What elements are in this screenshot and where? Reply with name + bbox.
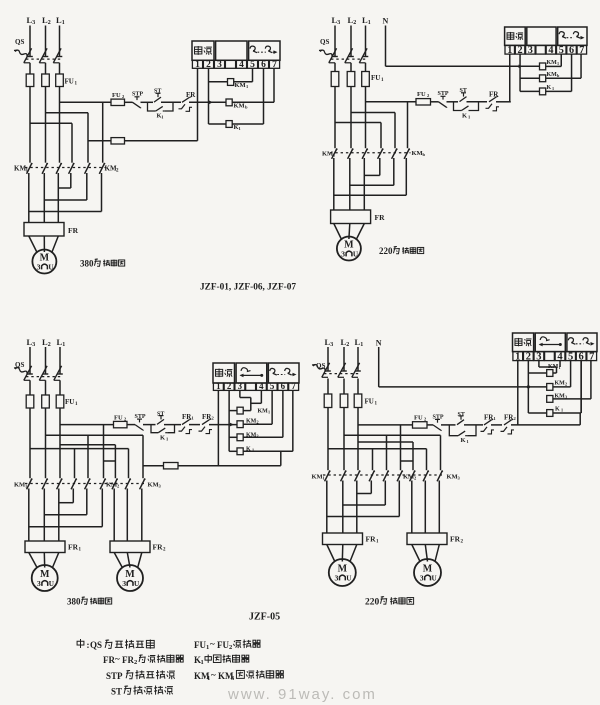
svg-text:FR: FR [375,213,386,222]
svg-text:~: ~ [115,654,120,664]
svg-text:2: 2 [134,659,137,666]
svg-text:KM: KM [148,482,159,489]
svg-text:3: 3 [341,250,345,259]
svg-text:FU: FU [417,91,426,98]
svg-text:2: 2 [48,342,51,348]
svg-text:2: 2 [229,644,232,651]
svg-text:FR: FR [366,535,377,544]
svg-text:KM: KM [234,103,245,110]
svg-text:KM: KM [412,150,423,157]
svg-text:FU: FU [365,398,374,406]
svg-text:220: 220 [379,246,393,256]
svg-text:3: 3 [217,60,222,70]
svg-text:K: K [462,113,467,120]
svg-text:KM: KM [403,474,414,481]
svg-text:K: K [160,435,165,442]
svg-text:M: M [423,564,433,575]
svg-text:3: 3 [32,20,35,26]
svg-text:7: 7 [291,381,296,391]
svg-text:U: U [48,264,54,272]
svg-text:QS: QS [15,38,24,46]
svg-text:2: 2 [565,382,567,387]
svg-text:FR: FR [68,226,79,235]
svg-text:FU: FU [65,78,74,86]
svg-text:1: 1 [201,659,204,666]
svg-text:N: N [383,17,389,26]
svg-text:KM: KM [322,151,333,158]
svg-text:1: 1 [268,410,270,415]
svg-text:U: U [49,580,55,588]
svg-text:2: 2 [227,381,232,391]
svg-text:1: 1 [552,86,554,91]
svg-text:FU: FU [194,640,206,650]
svg-text:STP: STP [106,671,123,681]
svg-text:380: 380 [80,259,94,269]
svg-text:KM: KM [14,482,25,489]
svg-text:2: 2 [48,20,51,26]
svg-text:5: 5 [270,381,275,391]
svg-text:380: 380 [67,597,81,607]
svg-text:FR: FR [489,90,499,98]
svg-text:3: 3 [528,45,533,56]
svg-text:~: ~ [210,639,215,649]
svg-text:3: 3 [420,574,424,583]
svg-text:3: 3 [238,381,243,391]
svg-text:KM: KM [258,409,269,415]
svg-text:N: N [376,339,382,348]
svg-text:KM: KM [235,82,246,89]
svg-text:7: 7 [579,45,584,56]
svg-text:3: 3 [37,263,41,272]
svg-text:1: 1 [206,644,209,651]
svg-text:3: 3 [32,342,35,348]
svg-text:2: 2 [346,342,349,348]
svg-text:JZF-05: JZF-05 [249,612,280,623]
svg-text:K: K [461,437,466,444]
svg-text:KM: KM [555,381,566,387]
svg-text:K: K [555,407,560,413]
svg-text:FR: FR [122,655,134,665]
svg-text:FR: FR [68,543,79,552]
svg-text:K: K [547,85,552,91]
svg-text:FU: FU [65,398,74,406]
svg-text:1: 1 [207,675,210,682]
svg-text:~: ~ [211,670,216,680]
svg-text:7: 7 [589,351,594,362]
svg-text:KM: KM [447,474,458,481]
svg-text:FU: FU [112,92,121,99]
svg-text:4: 4 [548,45,553,56]
svg-text:FR: FR [103,655,115,665]
svg-text:FU: FU [217,640,229,650]
svg-text:M: M [40,569,50,580]
svg-text:FU: FU [414,415,423,422]
svg-text:M: M [344,240,354,251]
svg-text:M: M [40,253,50,264]
svg-text:KM: KM [547,60,558,66]
svg-text:KM: KM [312,474,323,481]
svg-text:4: 4 [239,60,244,70]
svg-text:FR: FR [153,543,164,552]
svg-text:3: 3 [337,20,340,26]
svg-text:4: 4 [259,381,264,391]
svg-text:1: 1 [216,381,220,391]
svg-text:QS: QS [320,38,329,46]
svg-text:FU: FU [114,415,123,422]
svg-text:FR: FR [450,535,461,544]
svg-text:3: 3 [37,579,41,588]
svg-text:1: 1 [561,408,563,413]
svg-text:www. 91way. com: www. 91way. com [227,686,377,703]
svg-text:U: U [346,575,352,583]
svg-text:1: 1 [62,342,65,348]
svg-text:1: 1 [62,20,65,26]
svg-text:1: 1 [557,61,559,66]
svg-text:U: U [432,575,438,583]
svg-text:ST: ST [111,687,122,697]
svg-text:U: U [134,580,140,588]
svg-text:6: 6 [281,381,286,391]
svg-text:FU: FU [371,74,380,82]
svg-text:U: U [353,251,359,259]
svg-text:220: 220 [365,598,380,608]
svg-text:3: 3 [122,579,126,588]
svg-text:QS: QS [90,640,102,650]
svg-text:KM: KM [106,482,117,489]
svg-text:KM: KM [547,72,558,78]
svg-text:1: 1 [360,342,363,348]
svg-text:2: 2 [353,20,356,26]
svg-text:1: 1 [368,20,371,26]
svg-text:3: 3 [335,574,339,583]
svg-text:M: M [338,564,348,575]
svg-text:JZF-01, JZF-06, JZF-07: JZF-01, JZF-06, JZF-07 [200,283,296,293]
svg-text:M: M [125,569,135,580]
svg-text:FR: FR [186,91,196,99]
svg-text:3: 3 [330,342,333,348]
